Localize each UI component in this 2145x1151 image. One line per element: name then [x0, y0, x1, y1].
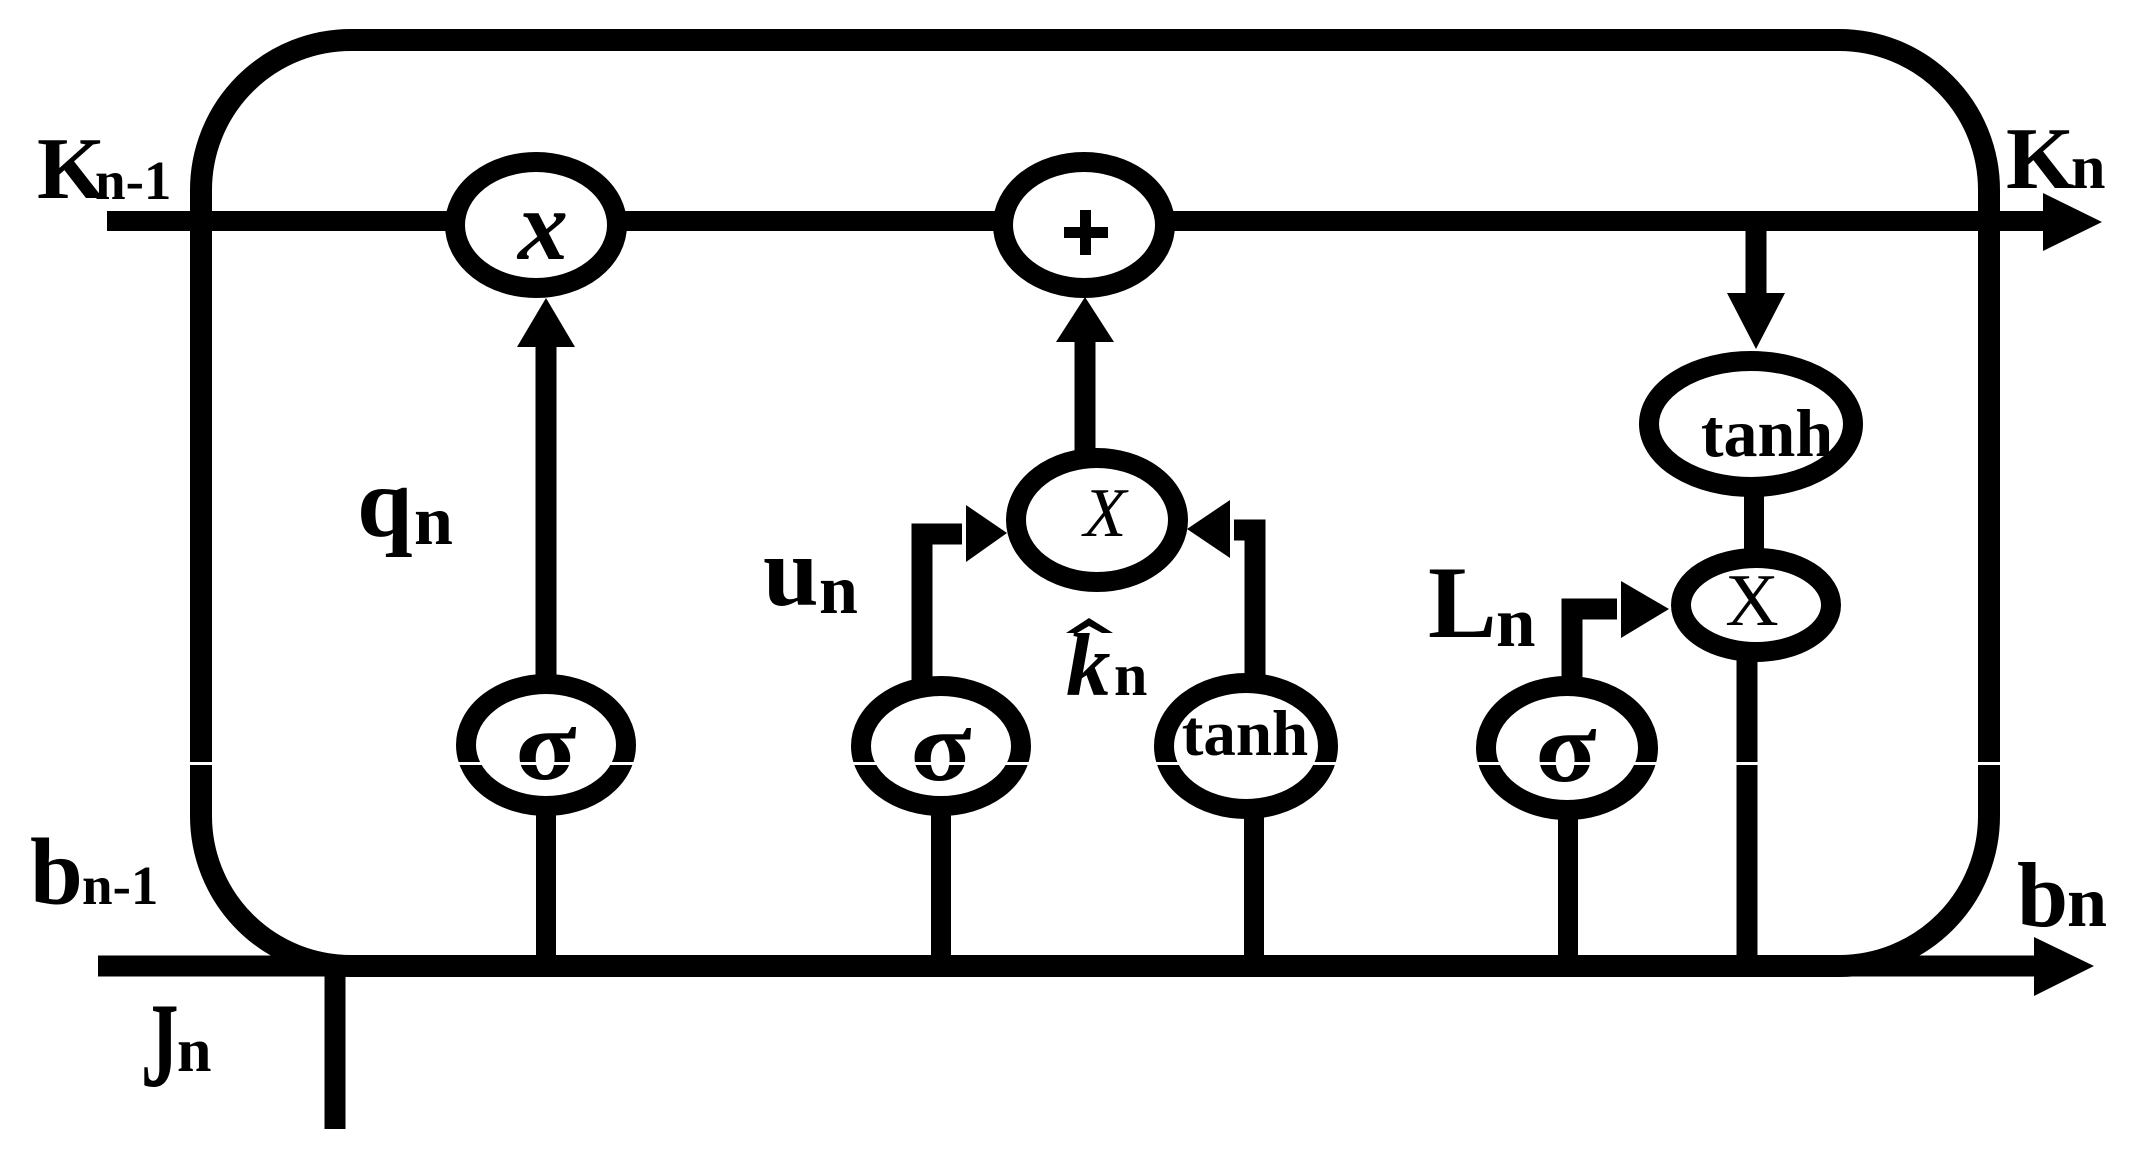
svg-text:n: n — [1114, 642, 1147, 708]
wire up arrow from X2 to plus — [1075, 340, 1096, 452]
svg-text:tanh: tanh — [1701, 395, 1833, 471]
svg-text:n: n — [819, 552, 858, 629]
svg-text:L: L — [1428, 546, 1497, 660]
svg-text:tanh: tanh — [1182, 698, 1308, 770]
svg-text:σ: σ — [1535, 693, 1596, 804]
wire K top line — [107, 211, 2055, 231]
gate sigma3 ellipse — [1486, 686, 1648, 810]
wire X3 down to b line — [1737, 655, 1758, 966]
arrowhead b_n output — [2034, 937, 2094, 996]
svg-text:b: b — [30, 819, 83, 925]
wire tanh2 down to b line — [1244, 812, 1264, 966]
label k-hat_n — [1066, 618, 1113, 633]
svg-text:k: k — [1066, 617, 1111, 715]
svg-text:u: u — [763, 516, 819, 627]
svg-text:J: J — [141, 978, 179, 1113]
svg-text:n-1: n-1 — [95, 150, 171, 211]
wire tanh2 elbow arrow into X2 right — [1234, 530, 1255, 675]
wire tanh1 to X3 connector — [1744, 490, 1764, 555]
svg-text:X: X — [1081, 475, 1130, 552]
svg-text:X: X — [1725, 560, 1778, 642]
svg-text:K: K — [2006, 111, 2074, 208]
gate tanh1 ellipse right — [1649, 361, 1853, 487]
wire sigma1 down to b line — [536, 810, 556, 966]
svg-text:σ: σ — [515, 691, 576, 802]
arrowhead K_n output — [2043, 193, 2102, 251]
svg-text:n: n — [414, 483, 453, 560]
wire down arrow from K line to tanh1 — [1746, 225, 1767, 296]
svg-text:q: q — [357, 447, 413, 558]
wire sigma3 down to b line — [1558, 815, 1578, 966]
wire J_n input vertical — [325, 960, 346, 1129]
wire b bottom line — [98, 956, 2045, 977]
scan artifact white line — [0, 762, 2145, 765]
gate sigma2 ellipse — [861, 686, 1021, 806]
gate plus ellipse on K line — [1003, 162, 1165, 288]
svg-text:n: n — [1496, 584, 1536, 662]
svg-text:n-1: n-1 — [82, 855, 158, 916]
gate tanh2 ellipse middle bottom — [1164, 683, 1328, 809]
gate X1 multiply ellipse on K line — [455, 162, 617, 288]
svg-text:b: b — [2017, 844, 2068, 946]
wire q_n arrow from sigma1 to X1 — [536, 340, 557, 680]
wire sigma2 down to b line — [931, 810, 951, 966]
gate X3 multiply ellipse right — [1681, 558, 1831, 652]
svg-text:n: n — [2067, 862, 2107, 942]
wire sigma3 elbow arrow into X3 left — [1572, 609, 1617, 680]
gate X2 multiply ellipse middle — [1016, 458, 1178, 582]
gate sigma1 ellipse — [466, 684, 626, 806]
svg-text:n: n — [2071, 134, 2105, 202]
cell body rounded rectangle — [201, 40, 1989, 966]
svg-text:n: n — [177, 1017, 211, 1085]
svg-text:σ: σ — [910, 692, 971, 803]
wire sigma2 elbow arrow into X2 left — [922, 534, 962, 680]
svg-text:x: x — [516, 170, 568, 281]
